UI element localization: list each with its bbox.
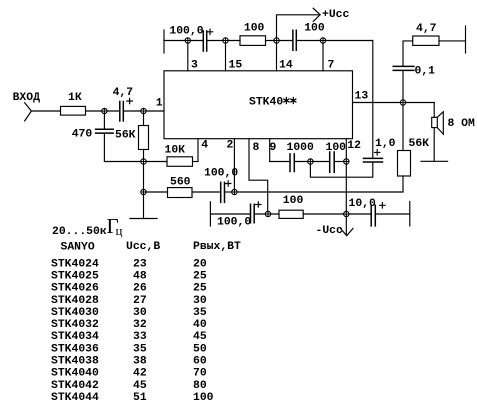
plus sign of cap 100,0 mid <box>226 181 231 186</box>
capacitor 0,1 plates <box>393 66 414 70</box>
resistor 56K right <box>398 151 411 177</box>
svg-text:45: 45 <box>133 380 147 392</box>
wire node B down to 56K <box>143 111 145 126</box>
svg-text:26: 26 <box>133 283 147 295</box>
svg-text:1000: 1000 <box>287 142 315 154</box>
wire corner down to cap 1,0 <box>372 41 374 158</box>
node F <box>265 211 270 216</box>
svg-text:1К: 1К <box>68 92 82 104</box>
resistor 100 bottom <box>279 210 303 218</box>
node B <box>141 108 146 113</box>
IC label asterisk 1 <box>283 97 296 104</box>
ground <box>130 218 157 220</box>
wire node D to 560 <box>144 191 168 193</box>
capacitor 100,0 top plates <box>203 31 206 51</box>
wire 1K to cap 4,7 <box>86 110 120 112</box>
wire node J down to 56K right <box>402 103 404 151</box>
svg-text:27: 27 <box>133 295 147 307</box>
node H <box>308 159 313 164</box>
pin 9 <box>269 139 271 162</box>
svg-text:8: 8 <box>253 142 260 154</box>
node G <box>344 211 349 216</box>
pin 3 <box>187 41 189 71</box>
svg-text:25: 25 <box>193 271 207 283</box>
svg-text:STK4042: STK4042 <box>51 380 99 392</box>
pin 4 <box>197 139 199 162</box>
svg-text:35: 35 <box>133 343 147 355</box>
svg-text:1: 1 <box>156 98 163 110</box>
speaker cone <box>437 112 443 135</box>
svg-text:10К: 10К <box>165 144 186 156</box>
wire resistor 100 to cap 100 <box>266 40 293 42</box>
capacitor 10,0 plates <box>371 205 375 226</box>
capacitor 100,0 mid plates <box>221 182 225 202</box>
svg-text:13: 13 <box>355 90 369 102</box>
svg-text:+Ucc: +Ucc <box>322 9 350 21</box>
svg-text:STK4038: STK4038 <box>51 356 99 368</box>
svg-text:4: 4 <box>201 139 208 151</box>
svg-text:STK4032: STK4032 <box>51 319 99 331</box>
wire cap 4,7 to pin 1 <box>124 110 164 112</box>
capacitor 100 pin12 plates <box>330 152 335 172</box>
pin 14 <box>276 41 278 71</box>
svg-text:STK4044: STK4044 <box>51 392 99 404</box>
svg-text:STK4036: STK4036 <box>51 343 99 355</box>
wire pin 9 to cap 1000 <box>270 161 290 163</box>
wire node A down to cap 470 <box>103 111 105 129</box>
svg-text:51: 51 <box>133 392 147 404</box>
node E <box>232 189 237 194</box>
wire node C down to ground <box>143 162 145 219</box>
svg-text:4,7: 4,7 <box>113 87 134 99</box>
svg-text:ВХОД: ВХОД <box>13 92 41 104</box>
IC label asterisk 2 <box>290 97 296 104</box>
wire speaker to ground <box>433 128 435 162</box>
speaker box <box>432 117 438 127</box>
pin 13 wire <box>353 102 435 104</box>
svg-text:-Ucc: -Ucc <box>316 225 344 237</box>
pin 15 <box>225 41 227 71</box>
pin 2 <box>233 139 235 192</box>
svg-text:100: 100 <box>283 195 304 207</box>
plus sign of cap 10,0 <box>380 203 385 208</box>
capacitor 470 plates <box>96 129 114 133</box>
svg-text:STK4034: STK4034 <box>51 331 99 343</box>
svg-text:100: 100 <box>244 23 265 35</box>
svg-text:45: 45 <box>193 331 207 343</box>
resistor 1K <box>61 106 86 115</box>
svg-text:42: 42 <box>133 368 147 380</box>
svg-text:35: 35 <box>193 307 207 319</box>
svg-text:470: 470 <box>72 129 93 141</box>
plus sign of cap 100,0 lower <box>256 202 261 207</box>
node top 1 <box>185 38 190 43</box>
wire T-bar to cap 100,0 lower <box>210 213 249 215</box>
wire input to 1K <box>31 110 60 112</box>
pin 12 wire down to -Ucc <box>345 139 347 235</box>
node top 4 <box>320 38 325 43</box>
svg-text:STK4040: STK4040 <box>51 368 99 380</box>
svg-text:14: 14 <box>279 59 293 71</box>
input arrow <box>25 103 32 121</box>
svg-text:33: 33 <box>133 331 147 343</box>
svg-text:100: 100 <box>304 23 325 35</box>
capacitor 1,0 plates <box>364 158 383 162</box>
wire cap 470 to node C <box>104 134 143 162</box>
node top 2 <box>223 38 228 43</box>
wire T-bar to cap 100,0 top <box>164 40 203 42</box>
svg-text:2: 2 <box>227 139 234 151</box>
wire 4,7 to T-bar <box>439 40 466 42</box>
resistor 100 top <box>240 36 266 46</box>
svg-text:12: 12 <box>347 140 361 152</box>
resistor 560 <box>168 188 193 198</box>
wire cap 100,0 to node E <box>225 191 234 193</box>
svg-text:48: 48 <box>133 271 147 283</box>
svg-text:23: 23 <box>133 258 147 270</box>
terminal T-bar right top <box>465 26 467 53</box>
plus sign of cap 100,0 top <box>207 29 212 34</box>
wire cap 100 to pin 12 <box>335 161 347 163</box>
svg-text:100,0: 100,0 <box>169 25 203 37</box>
svg-text:56К: 56К <box>409 138 430 150</box>
capacitor 100,0 lower plates <box>251 204 255 223</box>
svg-text:STK4028: STK4028 <box>51 295 99 307</box>
terminal T-bar top left <box>163 30 165 53</box>
svg-text:STK4026: STK4026 <box>51 283 99 295</box>
svg-text:STK4030: STK4030 <box>51 307 99 319</box>
svg-text:1,0: 1,0 <box>375 138 396 150</box>
svg-text:60: 60 <box>193 356 207 368</box>
wire cap 1000 to cap 100 <box>295 161 329 163</box>
svg-text:7: 7 <box>328 59 335 71</box>
svg-text:30: 30 <box>193 295 207 307</box>
capacitor 1000 plates <box>290 154 294 172</box>
svg-text:100,0: 100,0 <box>217 216 251 228</box>
plus sign of cap 1,0 <box>375 150 380 155</box>
svg-text:Рвых,ВТ: Рвых,ВТ <box>193 241 241 253</box>
terminal T-bar bottom right <box>409 201 411 226</box>
svg-text:STK4024: STK4024 <box>51 258 99 270</box>
capacitor 4,7 plates <box>120 102 124 122</box>
svg-text:25: 25 <box>193 283 207 295</box>
wire 56K to node C <box>143 150 145 162</box>
svg-text:15: 15 <box>229 59 243 71</box>
wire cap lower to node F <box>255 213 279 215</box>
svg-text:3: 3 <box>191 59 198 71</box>
svg-text:50: 50 <box>193 343 207 355</box>
svg-text:10,0: 10,0 <box>349 198 377 210</box>
svg-text:38: 38 <box>133 356 147 368</box>
plus sign of 4,7 <box>127 98 132 103</box>
wire node C to 10K <box>144 161 168 163</box>
svg-text:9: 9 <box>270 142 277 154</box>
node D <box>141 189 146 194</box>
capacitor 100 top plates <box>293 30 296 50</box>
svg-text:4,7: 4,7 <box>416 23 437 35</box>
node A <box>102 108 107 113</box>
svg-text:Ucc,В: Ucc,В <box>126 241 160 253</box>
svg-text:20...50к: 20...50к <box>52 226 107 238</box>
wire node J up to cap 0,1 <box>402 71 404 103</box>
wire cap 1,0 to node H <box>310 162 372 178</box>
-Ucc arrow <box>341 228 354 235</box>
svg-text:40: 40 <box>193 319 207 331</box>
svg-text:100: 100 <box>326 142 347 154</box>
wire resistor 100 bottom to node G <box>303 213 346 215</box>
svg-text:100,0: 100,0 <box>204 167 238 179</box>
terminal T-bar bottom left <box>209 202 211 226</box>
node I <box>344 159 349 164</box>
svg-text:30: 30 <box>133 307 147 319</box>
node J <box>400 100 405 105</box>
svg-text:20: 20 <box>193 258 207 270</box>
wire node G to cap 10,0 <box>346 213 370 215</box>
feedback wire node E to 56K right <box>234 176 403 192</box>
node top 3 <box>274 38 279 43</box>
wire cap 10,0 to T-bar <box>376 213 410 215</box>
pin 8 <box>249 139 268 214</box>
wire +Ucc branch <box>277 15 321 41</box>
+Ucc arrow <box>313 8 320 21</box>
svg-text:32: 32 <box>133 319 147 331</box>
svg-text:STK4025: STK4025 <box>51 271 99 283</box>
wire cap 0,1 to resistor 4,7 <box>403 41 413 66</box>
svg-text:560: 560 <box>170 176 191 188</box>
pin 7 <box>322 41 324 71</box>
wire 10K to pin 4 <box>193 161 199 163</box>
svg-text:8 ОМ: 8 ОМ <box>448 118 476 130</box>
svg-text:100: 100 <box>193 392 214 404</box>
resistor 56K left <box>139 126 149 150</box>
svg-text:0,1: 0,1 <box>415 65 436 77</box>
svg-text:80: 80 <box>193 380 207 392</box>
wire cap 100 to corner <box>297 40 373 42</box>
op-amp U1 IC box STK40 <box>164 71 353 139</box>
ground speaker <box>421 160 448 162</box>
node C <box>141 159 146 164</box>
wire 560 to cap 100,0 <box>192 191 220 193</box>
resistor 4,7 <box>413 36 439 45</box>
svg-text:56К: 56К <box>115 129 136 141</box>
svg-text:ц: ц <box>116 223 123 238</box>
svg-text:70: 70 <box>193 368 207 380</box>
wire cap to resistor 100 top <box>207 40 240 42</box>
resistor 10K <box>167 157 193 167</box>
svg-text:SANYO: SANYO <box>61 241 95 253</box>
wire pin13 corner to speaker <box>433 103 435 118</box>
svg-text:STK40: STK40 <box>249 97 283 109</box>
